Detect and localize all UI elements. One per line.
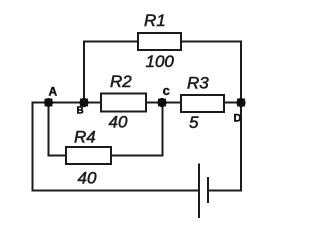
svg-text:40: 40 xyxy=(109,113,128,132)
svg-text:B: B xyxy=(77,106,84,117)
svg-text:R3: R3 xyxy=(187,74,209,93)
svg-text:40: 40 xyxy=(78,169,97,188)
svg-text:5: 5 xyxy=(189,113,199,132)
svg-text:c: c xyxy=(163,83,170,98)
svg-text:D: D xyxy=(234,113,242,125)
svg-text:R4: R4 xyxy=(74,128,96,147)
svg-text:100: 100 xyxy=(146,52,175,71)
svg-text:R2: R2 xyxy=(110,72,132,91)
svg-text:A: A xyxy=(49,85,58,99)
svg-text:R1: R1 xyxy=(144,11,166,30)
